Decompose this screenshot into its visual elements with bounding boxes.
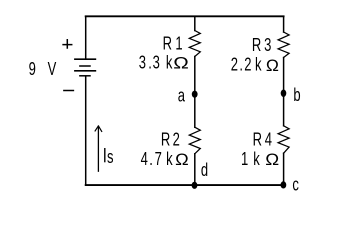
resistor R1 zigzag [189,31,200,57]
node c junction dot [281,181,287,188]
node a junction dot [192,91,198,98]
label R1 value 3.3 kOhm [139,54,173,74]
resistor R4 zigzag [278,126,289,153]
label R4 designator [253,131,273,151]
svg-text:1k: 1k [241,150,260,170]
battery V1 plate short [80,65,90,67]
node b junction dot [281,90,287,97]
label R3 value ohm symbol [266,55,279,75]
label R3 value 2.2 kOhm [231,56,262,76]
resistor R2 zigzag [189,127,200,154]
label current Is: s [107,148,114,168]
svg-text:s: s [107,148,114,168]
svg-text:9V: 9V [29,60,57,80]
label R2 value 4.7 kOhm [141,150,173,170]
svg-text:R2: R2 [161,130,180,150]
label R2 value ohm symbol [175,149,189,168]
label R2 designator [161,130,180,150]
wire left branch upper (top wire to battery +) [85,16,87,59]
battery V1 plate long [75,70,96,72]
wire left branch lower (battery - to bottom wire) [85,76,87,185]
label R1 value ohm symbol [173,54,189,73]
svg-text:R1: R1 [163,34,183,54]
svg-text:Ω: Ω [173,54,189,73]
svg-text:2.2k: 2.2k [231,56,262,76]
wire right branch bottom (R4 to node c) [283,153,285,185]
resistor R3 zigzag [278,32,289,58]
wire middle branch top (top wire to R1) [194,16,196,30]
svg-text:R3: R3 [252,36,272,56]
battery minus sign [64,90,74,92]
svg-text:a: a [178,87,185,107]
wire middle branch bottom (R2 to node d) [194,154,196,185]
battery V1 plate short bottom (-) [80,75,90,77]
label current Is: I bar [104,148,105,162]
wire top horizontal [86,15,284,17]
wire right branch mid (R3 to node b to R4) [283,58,285,126]
battery plus sign [63,40,72,48]
svg-text:Ω: Ω [266,55,279,75]
svg-text:Ω: Ω [175,149,189,168]
wire bottom horizontal [86,184,284,186]
svg-text:3.3k: 3.3k [139,54,173,74]
label R4 value 1 kOhm [241,150,260,170]
label R1 designator [163,34,183,54]
label 9 V source value [29,60,57,80]
current arrow Is (pointing up) [97,127,99,172]
wire right branch top (top wire to R3) [283,16,285,32]
svg-text:4.7k: 4.7k [141,150,173,170]
svg-text:d: d [201,161,208,181]
label node d [201,161,208,181]
wire middle branch mid (R1 to node a to R2) [194,57,196,128]
svg-text:b: b [293,86,300,106]
label R3 designator [252,36,272,56]
svg-text:c: c [292,175,299,195]
svg-text:R4: R4 [253,131,273,151]
label node a [178,87,185,107]
node d junction dot [192,182,198,189]
svg-text:Ω: Ω [265,150,279,169]
label R4 value ohm symbol [265,150,279,169]
label node c [292,175,299,195]
battery V1 9V plate long top (+) [75,58,96,60]
label node b [293,86,300,106]
